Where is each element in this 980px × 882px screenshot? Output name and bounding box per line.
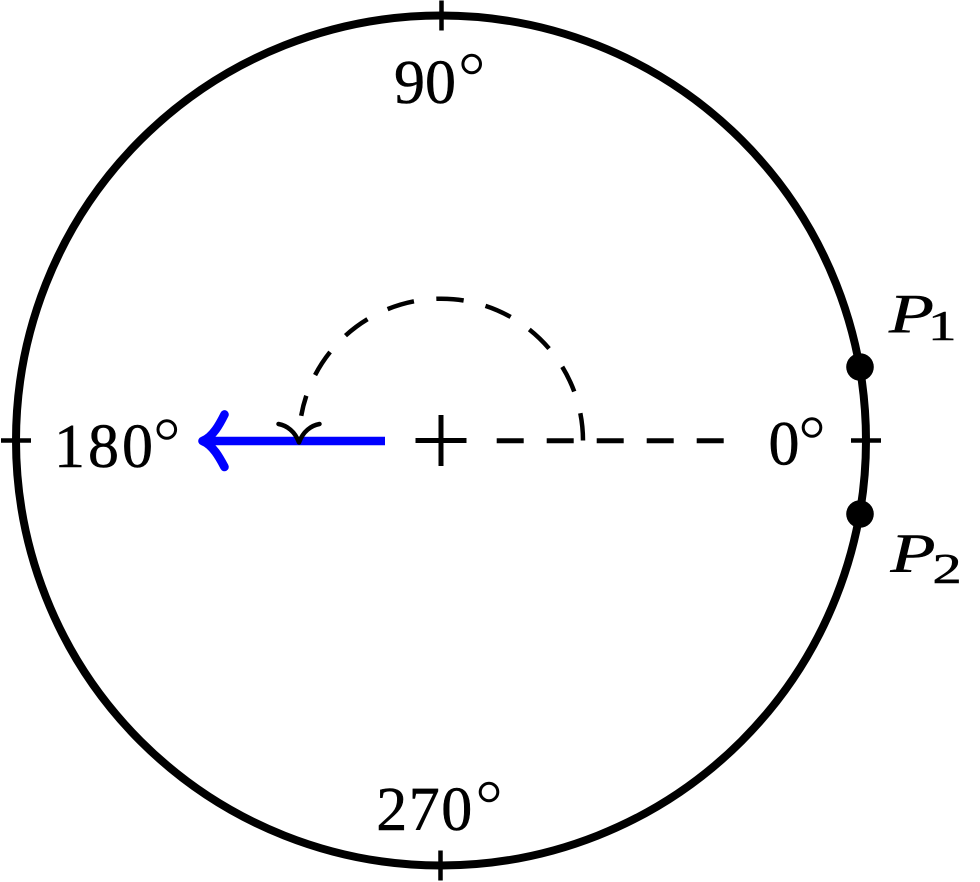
svg-text:0: 0	[769, 411, 800, 479]
dashed 0-degree reference line	[497, 438, 724, 443]
tick 270 (bottom)	[438, 851, 443, 881]
svg-text:2: 2	[932, 546, 961, 593]
arc arrowhead (points down)	[279, 424, 320, 443]
svg-text:180: 180	[54, 413, 156, 481]
blue heading arrowhead	[203, 415, 225, 468]
point P1 dot	[846, 353, 874, 381]
tick 0 (right)	[851, 438, 881, 443]
tick 90 (top)	[439, 1, 444, 31]
svg-text:270: 270	[376, 776, 474, 844]
svg-text:1: 1	[928, 302, 957, 349]
tick 180 (left)	[1, 438, 31, 443]
point P2 dot	[846, 500, 874, 528]
svg-text:P: P	[889, 523, 935, 584]
blue heading arrow shaft	[207, 437, 385, 446]
dashed angle arc	[301, 299, 583, 441]
center cross	[416, 415, 467, 466]
svg-text:90: 90	[394, 49, 456, 117]
